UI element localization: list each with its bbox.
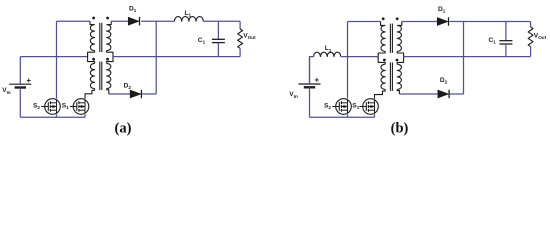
polarity dot lower secondary (a) <box>106 58 109 61</box>
svg-text:(b): (b) <box>391 121 409 137</box>
transformer T1 (a) lower secondary winding <box>107 63 111 88</box>
battery V_In figure (b) <box>299 83 321 85</box>
load resistor V_Out (b) <box>530 22 532 28</box>
figure (b) battery V_In positive wire <box>309 57 311 84</box>
wire S2 source to rail (b) <box>347 114 349 117</box>
transformer T2 (b) center-tap block left <box>378 51 385 64</box>
MOSFET S2 (b) <box>336 99 352 115</box>
inductor L1 (a) <box>175 17 204 22</box>
transformer T2 (b) lower primary winding <box>381 64 385 89</box>
transformer T2 (b) lower core lines <box>389 62 391 91</box>
polarity dot upper secondary (a) <box>106 17 109 20</box>
polarity dot lower secondary (b) <box>396 59 399 62</box>
battery negative wire (a) <box>19 88 21 118</box>
polarity dot lower primary (b) <box>383 59 386 62</box>
capacitor C1 (a) <box>217 21 219 39</box>
inductor L1 (b) <box>310 57 314 84</box>
wire S2 source to rail (a) <box>56 114 58 117</box>
wire L1 to output node (a) <box>203 20 240 22</box>
svg-text:+: + <box>26 76 31 85</box>
load resistor V_Out (a) <box>239 21 241 29</box>
polarity dot upper primary (b) <box>382 17 385 20</box>
transformer T1 (a) primary top lead step <box>90 21 95 24</box>
transformer T1 (a) lower core lines <box>99 62 101 91</box>
transformer T2 (b) primary top lead step <box>381 22 386 26</box>
diode D2 (a) <box>130 90 141 98</box>
diode D2 (b) <box>438 90 449 98</box>
bottom rail wire (a) <box>20 116 85 118</box>
node: D1/D2 cathode junction vertical (a) <box>155 21 157 94</box>
wire S1 source to rail (a) <box>84 114 86 117</box>
transformer T2 (b) upper core lines <box>389 24 391 53</box>
MOSFET S1 (b) <box>363 99 379 115</box>
transformer T2 (b) upper primary winding <box>381 25 385 51</box>
battery negative wire (b) <box>309 87 311 117</box>
wire primary bottom staircase to S1 drain (a) <box>85 89 95 99</box>
MOSFET S1 (a) <box>73 99 89 115</box>
wire D1 cathode to L1 (a) <box>141 20 174 22</box>
wire top rail left (b): S2 drain to primary top <box>348 21 381 23</box>
diode D1 (b) <box>437 18 448 26</box>
wire secondary bottom step to D2 (a) <box>107 89 109 94</box>
wire top rail left (a): S2 drain to primary top <box>57 20 91 22</box>
wire S1 source to rail (b) <box>374 114 376 117</box>
wire D2 anode (b) <box>399 93 438 95</box>
wire output return (b) <box>404 56 531 58</box>
polarity dot lower primary (a) <box>92 58 95 61</box>
transformer T1 (a) center-tap block left <box>88 51 95 64</box>
transformer T2 (b) upper secondary winding <box>397 25 401 51</box>
wire output return / secondary center tap (a) <box>113 56 240 58</box>
transformer T2 (b) center-tap block right <box>397 51 403 64</box>
polarity dot upper primary (a) <box>92 17 95 20</box>
svg-text:(a): (a) <box>115 121 132 137</box>
wire secondary bottom step to D2 (b) <box>397 89 399 94</box>
transformer T1 (a) upper secondary winding <box>107 25 111 51</box>
transformer T1 (a) upper primary winding <box>90 25 94 51</box>
svg-text:+: + <box>314 76 319 85</box>
transformer T2 (b) lower secondary winding <box>397 64 401 89</box>
wire secondary top lead to D1 (b) <box>397 22 402 26</box>
wire D2 anode (a) <box>109 93 130 95</box>
polarity dot upper secondary (b) <box>396 17 399 20</box>
wire D2 cathode (a) <box>142 93 156 95</box>
wire D1 cathode to output (b) <box>450 21 531 23</box>
wire L1 to center tap (b) <box>341 56 378 58</box>
wire secondary top lead to D1 (a) <box>107 21 112 24</box>
diode D1 (a) <box>128 17 139 25</box>
node: D1/D2 cathode junction vertical (b) <box>463 22 465 95</box>
wire D2 cathode (b) <box>450 93 464 95</box>
transformer T1 (a) lower primary winding <box>90 63 94 88</box>
wire primary bottom staircase to S1 drain (b) <box>375 89 386 98</box>
wire S2 drain vertical (b) <box>347 22 349 99</box>
wire S2 drain vertical (a) <box>56 21 58 99</box>
bottom rail wire (b) <box>310 116 375 118</box>
capacitor C1 (b) <box>505 22 507 41</box>
battery V_In figure (a) <box>9 83 31 85</box>
wire center tap left (a): battery to primary center tap <box>20 56 87 58</box>
MOSFET S2 (a) <box>45 99 61 115</box>
figure (a) battery V_In positive wire <box>19 57 21 85</box>
transformer T1 (a) center-tap block right <box>107 51 113 64</box>
transformer T1 (a) upper core lines <box>99 23 101 52</box>
